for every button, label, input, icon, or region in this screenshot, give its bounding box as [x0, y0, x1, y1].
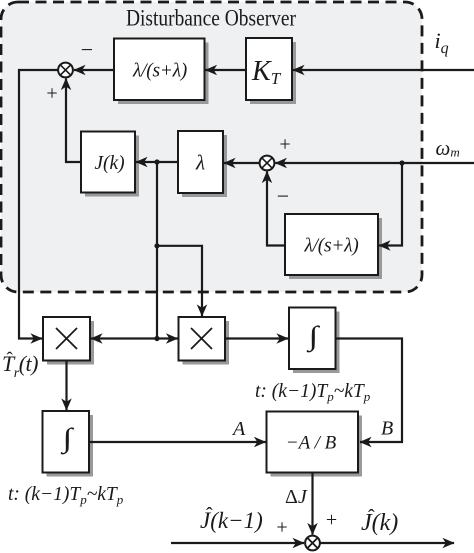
wire omega junction down to lam2 input [379, 163, 402, 246]
block KT shadow [250, 42, 296, 104]
wire J(k) output up to S1 plus [66, 79, 81, 163]
summing junction S1 [58, 63, 73, 78]
integrator I2 shadow [47, 415, 94, 477]
svg-text:B: B [381, 418, 393, 440]
svg-text:iq: iq [435, 28, 449, 57]
observer dashed region fill [1, 2, 422, 292]
integrator I2 [43, 411, 90, 473]
svg-text:J(k): J(k) [361, 510, 398, 536]
svg-text:−A / B: −A / B [286, 433, 337, 454]
svg-text:+: + [276, 517, 287, 539]
svg-text:ˆ: ˆ [368, 506, 375, 528]
svg-text:λ/(s+λ): λ/(s+λ) [304, 236, 359, 257]
wire S2 to lam [224, 162, 260, 164]
junction dot X row [154, 336, 159, 341]
wire branch to X2 top [157, 246, 202, 316]
svg-text:−: − [81, 37, 93, 62]
svg-text:t: (k−1)Tp~kTp: t: (k−1)Tp~kTp [255, 381, 371, 404]
multiplier X1 [43, 317, 90, 361]
wire X2 to I1 [225, 337, 288, 339]
block AB −A / B [267, 412, 359, 473]
wire I2 output to AB left (A) [89, 441, 266, 443]
svg-text:+: + [46, 83, 57, 105]
svg-text:A: A [231, 418, 246, 440]
wire X1 down to I2 [65, 361, 67, 411]
wire iq input to KT [293, 69, 474, 71]
wire junction right into X2 [157, 337, 178, 339]
wire lam to Jk [136, 161, 178, 163]
svg-text:+: + [326, 509, 337, 531]
wire I1 output to AB right (B) [336, 339, 403, 443]
svg-text:+: + [279, 134, 290, 156]
block lam1 shadow [118, 43, 209, 105]
integrator I1 [289, 308, 336, 370]
wire S3 output J(k) [320, 542, 454, 544]
multiplier X2 [179, 317, 226, 361]
block lam shadow [182, 135, 227, 197]
block Jk shadow [85, 136, 139, 197]
summing junction S3 [305, 536, 320, 551]
junction dot branch [154, 243, 159, 248]
block lam2 shadow [289, 218, 382, 279]
svg-text:ωm: ωm [436, 136, 460, 160]
wire lam2 output up to S2 minus [267, 172, 285, 246]
wire lam1 to S1 [74, 69, 114, 71]
svg-text:λ/(s+λ): λ/(s+λ) [132, 61, 187, 82]
block lam2 λ/(s+λ) [285, 214, 378, 275]
summing junction S2 [260, 156, 275, 171]
svg-text:Disturbance Observer: Disturbance Observer [126, 6, 296, 31]
svg-text:λ: λ [195, 151, 205, 175]
svg-text:ΔJ: ΔJ [285, 486, 308, 508]
wire S1 output down to X1 [19, 70, 58, 339]
junction dot lam line [154, 159, 159, 164]
block KT [246, 38, 292, 100]
wire junction left into X1 [91, 337, 157, 339]
junction dot omega line [399, 160, 404, 165]
block Jk J(k) [81, 132, 135, 193]
wire J(k-1) into S3 [171, 542, 304, 544]
wire omega_m input to S2 [275, 162, 474, 164]
svg-text:t: (k−1)Tp~kTp: t: (k−1)Tp~kTp [8, 484, 124, 507]
block lam λ [178, 131, 223, 193]
block lam1 λ/(s+λ) [114, 39, 205, 101]
svg-text:J(k): J(k) [94, 153, 124, 174]
wire KT to lam1 [206, 69, 247, 71]
svg-text:ˆ: ˆ [206, 504, 213, 526]
svg-text:ˆ: ˆ [7, 349, 14, 370]
wire branch node down from lam line [156, 162, 158, 339]
svg-text:−: − [277, 184, 289, 209]
block AB shadow [271, 416, 363, 477]
wire AB output down to S3 [311, 473, 313, 535]
multiplier X2 shadow [183, 321, 230, 365]
integrator I1 shadow [293, 312, 340, 374]
multiplier X1 shadow [47, 321, 94, 365]
